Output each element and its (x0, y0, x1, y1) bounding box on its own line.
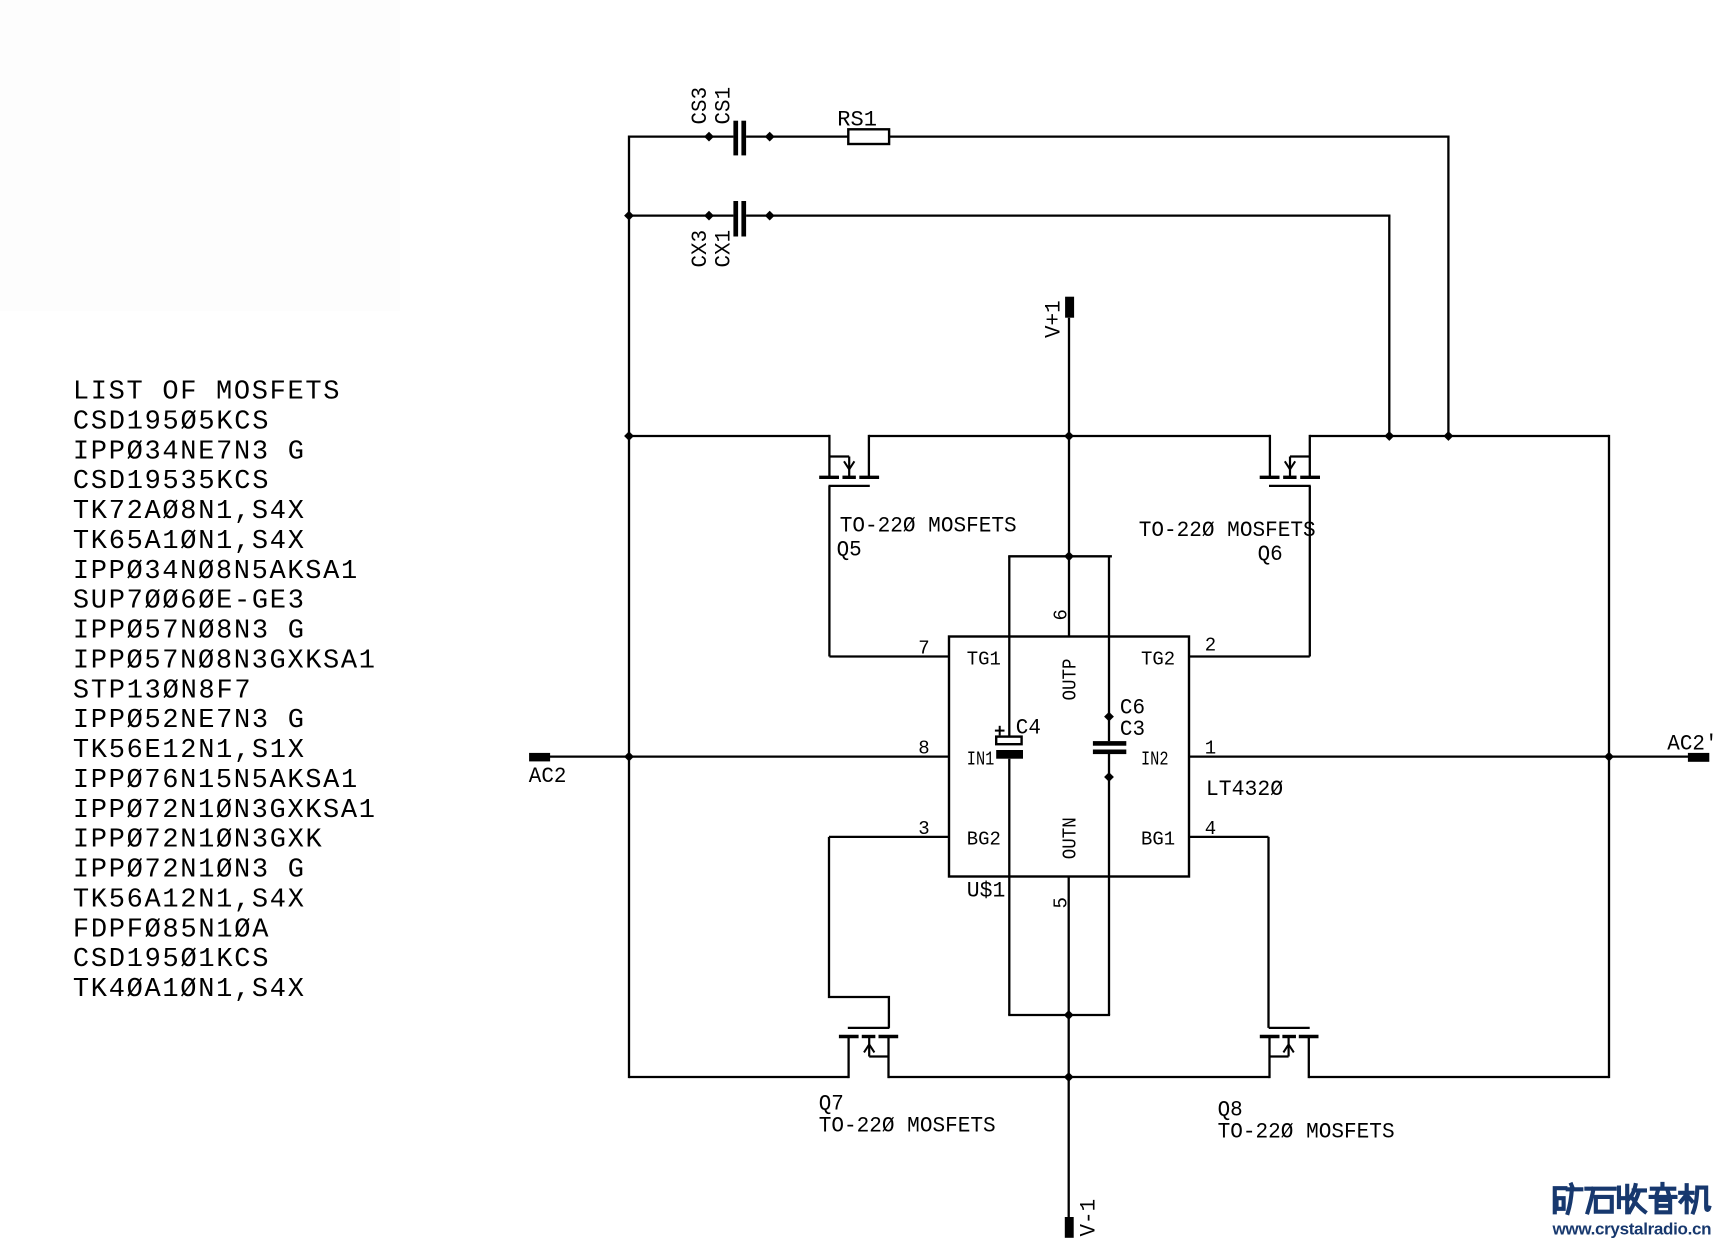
wire: C6/C3 bottom lead (1108, 754, 1110, 1015)
svg-text:STP13ØN8F7: STP13ØN8F7 (73, 676, 251, 706)
wire: pin 4 stub (1189, 836, 1269, 838)
wire: Q6 gate lead (1309, 486, 1311, 657)
junction top rail/RS1 drop (1444, 431, 1454, 441)
wire: C6/C3 top lead x=1109 (1108, 556, 1110, 741)
junction OUTN bus/pin5 (1064, 1010, 1074, 1020)
junction AC2' line/right vertical (1604, 752, 1614, 762)
wire: V+1 / pin6 lead x=1069 (1068, 318, 1070, 637)
svg-text:CSD19535KCS: CSD19535KCS (73, 467, 269, 497)
svg-text:7: 7 (918, 638, 929, 660)
junction CS left (704, 132, 714, 142)
svg-text:IN1: IN1 (967, 749, 995, 771)
transistor Q7 (N-MOSFET) (847, 1037, 849, 1079)
svg-text:TG1: TG1 (967, 648, 1001, 670)
wire: left vertical AC2 net x=629 (628, 135, 630, 1078)
svg-text:Q6: Q6 (1258, 542, 1283, 567)
svg-text:C4: C4 (1016, 716, 1041, 741)
wire: OUTN bus y=1015 (1008, 1014, 1110, 1016)
svg-text:TO-22Ø MOSFETS: TO-22Ø MOSFETS (840, 514, 1017, 539)
svg-text:V-1: V-1 (1077, 1199, 1102, 1237)
power V-1 terminal (1065, 1217, 1074, 1238)
wire: pin5 / V-1 lead x=1068.7 (1068, 877, 1070, 1218)
svg-text:Q5: Q5 (837, 538, 862, 563)
wire: pin 2 stub (1189, 655, 1310, 657)
svg-text:IPPØ72N1ØN3GXKSA1: IPPØ72N1ØN3GXKSA1 (73, 796, 375, 826)
svg-text:LIST OF MOSFETS: LIST OF MOSFETS (73, 378, 340, 408)
svg-text:FDPFØ85N1ØA: FDPFØ85N1ØA (73, 915, 269, 945)
capacitor C6/C3 (parallel pair) plates (1093, 741, 1126, 746)
watermark logo (Chinese characters) (1555, 1185, 1582, 1213)
svg-text:OUTP: OUTP (1060, 659, 1082, 701)
svg-text:8: 8 (918, 738, 929, 760)
wire: Q5 gate lead (828, 486, 830, 657)
junction top rail/CX drop (1384, 431, 1394, 441)
capacitor CX3/CX1 (parallel pair) plates (733, 201, 738, 237)
svg-text:TG2: TG2 (1141, 648, 1175, 670)
wire: pin 3 stub (829, 836, 949, 838)
svg-text:6: 6 (1050, 609, 1072, 620)
svg-text:CX1: CX1 (711, 230, 736, 268)
junction top rail/V+1 (1064, 431, 1074, 441)
wire: pin 7 stub (829, 655, 949, 657)
terminal AC2 (529, 753, 550, 762)
wire: C4 top lead x=1009.3 (1008, 556, 1010, 737)
wire: OUTP bus y=556.3 (1008, 555, 1112, 557)
svg-text:1: 1 (1205, 738, 1216, 760)
svg-text:BG2: BG2 (967, 828, 1001, 850)
svg-text:CSD195Ø1KCS: CSD195Ø1KCS (73, 945, 269, 975)
junction C6 bottom (1104, 772, 1114, 782)
svg-text:C3: C3 (1120, 717, 1145, 742)
transistor Q8 (N-MOSFET) (1268, 1037, 1270, 1079)
svg-text:AC2': AC2' (1667, 731, 1717, 756)
svg-text:RS1: RS1 (837, 108, 877, 133)
terminal AC2' (1688, 753, 1709, 762)
wire: Q8 gate lead (1267, 837, 1269, 1028)
svg-text:IPPØ72N1ØN3GXK: IPPØ72N1ØN3GXK (73, 826, 323, 856)
svg-text:5: 5 (1050, 897, 1072, 908)
junction AC2 line/left vertical (624, 752, 634, 762)
wire: C4 bottom lead (1008, 759, 1010, 1015)
wire: right drop from RS1 x=1448.4 (1447, 137, 1449, 436)
svg-text:CX3: CX3 (688, 230, 713, 268)
wire: right vertical AC2' net x=1609 (1608, 435, 1610, 1078)
svg-text:3: 3 (918, 818, 929, 840)
capacitor C4 (polarized) (996, 737, 1021, 745)
wire: bottom V- rail y=1077 (629, 1076, 849, 1078)
svg-text:V+1: V+1 (1042, 300, 1067, 338)
svg-text:IPPØ57NØ8N3GXKSA1: IPPØ57NØ8N3GXKSA1 (73, 646, 375, 676)
wire: top sense wire (CS/RS1 net) y=136.6 (629, 135, 733, 137)
wire: CX net y=215.6 (629, 214, 733, 216)
svg-text:BG1: BG1 (1141, 828, 1175, 850)
svg-text:CSD195Ø5KCS: CSD195Ø5KCS (73, 407, 269, 437)
wire: top V+ rail y=436 (629, 435, 829, 437)
junction OUTP bus/V+1 (1064, 551, 1074, 561)
junction CX right (765, 211, 775, 221)
junction C6 top (1104, 712, 1114, 722)
faint scan shading top-left (0, 0, 400, 311)
junction CS right (765, 132, 775, 142)
svg-text:AC2: AC2 (529, 764, 567, 789)
svg-text:TO-22Ø MOSFETS: TO-22Ø MOSFETS (1218, 1120, 1395, 1145)
resistor RS1 (848, 129, 889, 144)
svg-text:TO-22Ø MOSFETS: TO-22Ø MOSFETS (819, 1114, 996, 1139)
wire: right drop from CX x=1389.3 (1388, 216, 1390, 436)
transistor Q5 (N-MOSFET) (828, 435, 830, 478)
svg-text:CS1: CS1 (711, 87, 736, 125)
svg-text:IPPØ34NØ8N5AKSA1: IPPØ34NØ8N5AKSA1 (73, 557, 357, 587)
svg-text:2: 2 (1205, 635, 1216, 657)
svg-text:www.crystalradio.cn: www.crystalradio.cn (1552, 1220, 1712, 1239)
junction bottom rail/V-1 (1064, 1072, 1074, 1082)
junction CX left (704, 211, 714, 221)
junction top rail/left vertical (624, 431, 634, 441)
power V+1 terminal (1065, 297, 1074, 318)
svg-text:IPPØ76N15N5AKSA1: IPPØ76N15N5AKSA1 (73, 766, 357, 796)
svg-text:IN2: IN2 (1141, 749, 1169, 771)
wire: Q7 gate route (829, 837, 889, 1028)
svg-text:OUTN: OUTN (1060, 817, 1082, 859)
capacitor CS3/CS1 (parallel pair) plates (733, 121, 738, 156)
junction CX/left vertical (624, 211, 634, 221)
wire: middle AC2-AC2' line y=756.6 (550, 755, 949, 757)
transistor Q6 (N-MOSFET) (1269, 435, 1271, 478)
svg-text:4: 4 (1205, 818, 1216, 840)
svg-text:U$1: U$1 (967, 879, 1006, 904)
svg-text:CS3: CS3 (688, 87, 713, 125)
op-amp/IC U$1 LT4320 box (949, 637, 1189, 877)
svg-text:TO-22Ø MOSFETS: TO-22Ø MOSFETS (1139, 518, 1316, 543)
svg-text:LT432Ø: LT432Ø (1206, 777, 1283, 802)
